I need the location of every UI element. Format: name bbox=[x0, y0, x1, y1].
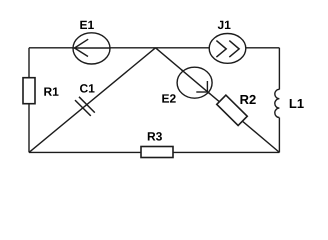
wire left bbox=[28, 48, 30, 153]
label E1 bbox=[80, 21, 94, 29]
label E2 bbox=[162, 94, 175, 102]
label C1 bbox=[80, 84, 95, 92]
label R2 bbox=[240, 95, 255, 104]
label L1 bbox=[290, 99, 304, 108]
resistor R3 bbox=[141, 147, 173, 158]
resistor R2 bbox=[217, 95, 247, 125]
label R3 bbox=[148, 132, 162, 141]
source J1 bbox=[209, 34, 246, 64]
inductor L1 bbox=[275, 89, 280, 117]
label J1 bbox=[218, 21, 231, 29]
label R1 bbox=[44, 87, 58, 95]
wire right upper bbox=[278, 48, 280, 90]
wire right lower bbox=[278, 118, 280, 153]
source E2 bbox=[177, 67, 212, 98]
capacitor C1 plate lower bbox=[75, 100, 91, 116]
wire bottom bbox=[29, 151, 279, 153]
wire diagonal right (node to bottom-right corner) bbox=[156, 48, 280, 153]
wire diagonal left (node to bottom-left corner) bbox=[29, 48, 156, 153]
wire top bbox=[29, 47, 279, 49]
capacitor C1 plate upper bbox=[79, 97, 95, 113]
resistor R1 bbox=[23, 78, 35, 104]
source E1 bbox=[73, 33, 110, 64]
